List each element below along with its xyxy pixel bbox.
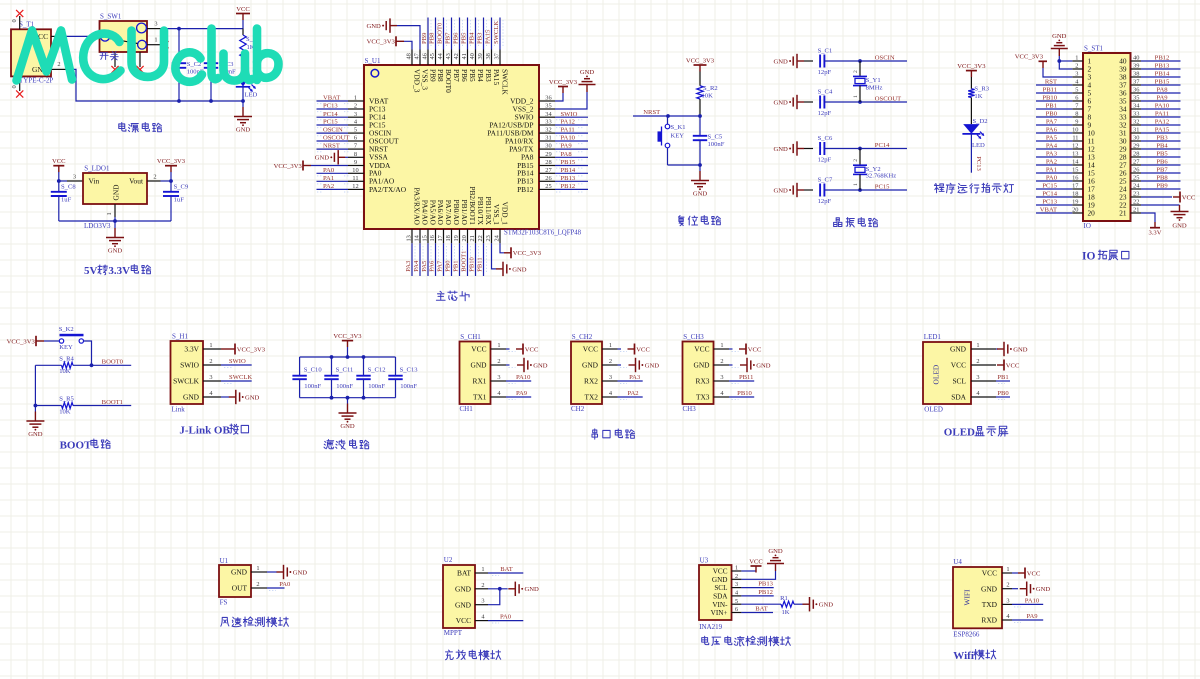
svg-text:PA5: PA5 (421, 260, 428, 272)
svg-text:R1: R1 (780, 595, 788, 602)
svg-text:S_CH3: S_CH3 (683, 333, 704, 341)
svg-text:1: 1 (481, 566, 484, 573)
svg-text:PB0: PB0 (1046, 111, 1058, 118)
svg-text:CH3: CH3 (683, 405, 697, 413)
wire PB1 net (996, 380, 1010, 382)
svg-text:1: 1 (609, 342, 612, 349)
svg-text:3: 3 (497, 374, 500, 381)
crystal group S_Y2 32.768KHz with caps S_C6 S_C7 (774, 135, 907, 205)
svg-text:PA8: PA8 (561, 151, 573, 158)
svg-text:PA7/AO: PA7/AO (444, 200, 453, 226)
junction (498, 587, 502, 591)
ground flag at header pin1/2 (1051, 33, 1073, 69)
svg-text:GND: GND (183, 393, 200, 402)
svg-text:OUT: OUT (232, 584, 248, 593)
svg-text:SWIO: SWIO (229, 358, 246, 365)
svg-text:24: 24 (493, 234, 500, 241)
svg-text:S_C6: S_C6 (818, 135, 833, 142)
serial module S_CH1 (460, 333, 548, 413)
svg-text:PA7: PA7 (1046, 119, 1058, 126)
svg-text:3.3V: 3.3V (184, 345, 199, 354)
wire PB12 net (741, 595, 773, 597)
svg-text:14: 14 (413, 234, 420, 241)
svg-text:GND: GND (645, 362, 660, 369)
svg-text:23: 23 (485, 235, 492, 241)
wire BAT net U3 (741, 612, 773, 614)
svg-text:3.3V: 3.3V (1148, 230, 1161, 237)
svg-text:PB6: PB6 (453, 32, 460, 44)
svg-text:47: 47 (413, 52, 420, 59)
svg-text:GND: GND (693, 190, 708, 197)
svg-text:2: 2 (256, 581, 259, 588)
svg-text:PB3: PB3 (1156, 135, 1168, 142)
svg-text:PC13: PC13 (1042, 199, 1057, 206)
ground flag U3 top (741, 548, 784, 580)
svg-text:BOOT: BOOT (60, 440, 92, 452)
svg-text:1uF: 1uF (61, 197, 72, 204)
svg-text:VCC: VCC (748, 346, 762, 353)
power flag VCC_3V3 reset (686, 57, 715, 85)
serial module S_CH3 (683, 333, 771, 413)
svg-text:VCC: VCC (694, 345, 709, 354)
ground flag U3 right (803, 603, 810, 605)
ground GND reset (691, 165, 709, 197)
svg-text:PA6: PA6 (429, 260, 436, 272)
svg-text:3: 3 (1006, 597, 1009, 604)
svg-text:8MHz: 8MHz (866, 85, 883, 92)
svg-text:0: 0 (11, 19, 18, 22)
wire key to cap bottom (668, 164, 701, 166)
wire PB0 net (996, 396, 1010, 398)
header right net wires (1141, 55, 1181, 190)
svg-text:39: 39 (477, 53, 484, 59)
svg-text:PA3: PA3 (1046, 151, 1058, 158)
svg-text:S_LDO1: S_LDO1 (84, 165, 110, 173)
svg-text:SCL: SCL (714, 584, 727, 592)
svg-text:SCL: SCL (952, 377, 966, 386)
svg-text:PA2: PA2 (1046, 159, 1057, 166)
svg-text:BOOT1: BOOT1 (102, 399, 123, 406)
svg-text:IO: IO (1084, 222, 1091, 230)
svg-text:VCC_3V3: VCC_3V3 (274, 163, 303, 170)
junction (330, 355, 334, 359)
svg-text:GND: GND (756, 362, 771, 369)
svg-text:PA4/AO: PA4/AO (420, 200, 429, 226)
svg-text:3: 3 (481, 598, 484, 605)
svg-text:PB5: PB5 (461, 32, 468, 44)
svg-text:PB10: PB10 (469, 256, 476, 271)
power flag VCC_3V3 at header pin3 (1015, 54, 1073, 77)
svg-text:PB7: PB7 (452, 69, 461, 82)
power flag 3.3V at header pin21 (1141, 213, 1162, 237)
svg-text:RX2: RX2 (584, 377, 598, 386)
wire BOOT1 net (73, 405, 131, 407)
junction (34, 404, 38, 408)
svg-text:PB8: PB8 (436, 69, 445, 82)
svg-text:PA15: PA15 (485, 29, 492, 44)
svg-text:VCC: VCC (951, 361, 966, 370)
svg-text:PA9: PA9 (1156, 95, 1168, 102)
svg-text:PB6: PB6 (1156, 159, 1168, 166)
svg-text:GND: GND (455, 584, 472, 593)
ground flag oled (996, 342, 1028, 356)
svg-text:STM32F103C8T6_LQFP48: STM32F103C8T6_LQFP48 (504, 230, 582, 237)
capacitor S_C10 100nF (292, 357, 322, 398)
svg-text:U4: U4 (953, 558, 962, 566)
wire NRST net (633, 115, 700, 117)
svg-text:U1: U1 (220, 557, 229, 565)
svg-text:U2: U2 (444, 556, 453, 564)
S_SW1 value label (100, 53, 108, 60)
svg-text:PA10: PA10 (561, 135, 576, 142)
junction (666, 114, 670, 118)
header S_ST1 IO body (1072, 45, 1141, 231)
oled module LED1 body (923, 333, 996, 414)
svg-text:2: 2 (853, 159, 859, 162)
wire filter bottom rail (300, 397, 396, 399)
svg-text:PC14: PC14 (323, 111, 338, 118)
resistor S_R3 1K (968, 86, 990, 125)
svg-text:PC13: PC13 (323, 103, 338, 110)
svg-text:PB11: PB11 (1043, 87, 1057, 94)
svg-text:S_U1: S_U1 (365, 57, 381, 65)
junction (177, 27, 181, 31)
svg-text:3: 3 (609, 374, 612, 381)
svg-text:16: 16 (429, 235, 436, 241)
resistor S_R1 1K (240, 29, 261, 77)
svg-text:3: 3 (976, 374, 979, 381)
svg-text:PB1/AO: PB1/AO (460, 200, 469, 226)
svg-text:1: 1 (1006, 566, 1009, 573)
svg-text:GND: GND (111, 184, 120, 201)
svg-text:S_C13: S_C13 (400, 366, 419, 373)
ground flag at mcu VSSA pin8 (315, 150, 348, 164)
svg-text:3: 3 (154, 21, 157, 28)
wire SWIO net (221, 364, 252, 366)
svg-text:1: 1 (106, 212, 113, 215)
wire PA0 net U2 (488, 620, 523, 622)
capacitor S_C8 1uF (51, 181, 77, 221)
svg-text:2: 2 (1006, 582, 1009, 589)
svg-text:1uF: 1uF (174, 197, 185, 204)
title 复位电路 (678, 216, 684, 226)
svg-text:PB11: PB11 (739, 374, 753, 381)
title 充放电模块 (446, 650, 454, 660)
svg-text:2: 2 (720, 358, 723, 365)
svg-text:VIN-: VIN- (712, 601, 728, 609)
svg-text:GND: GND (108, 247, 123, 254)
svg-text:GND: GND (512, 266, 527, 273)
svg-text:12pF: 12pF (818, 156, 832, 163)
svg-text:S_C9: S_C9 (174, 184, 189, 191)
svg-text:100nF: 100nF (708, 141, 725, 148)
svg-text:GND: GND (774, 146, 789, 153)
svg-text:PB6: PB6 (460, 69, 469, 82)
svg-text:S_SW1: S_SW1 (100, 13, 122, 21)
svg-text:S_ST1: S_ST1 (1084, 45, 1104, 53)
svg-text:BOOT0: BOOT0 (437, 22, 444, 44)
module U1 FS body (219, 557, 267, 607)
svg-text:S_CH1: S_CH1 (460, 333, 481, 341)
svg-text:15: 15 (421, 235, 428, 241)
svg-text:40: 40 (469, 53, 476, 59)
svg-text:PB10/TX: PB10/TX (476, 197, 485, 226)
mcu right side net wires (555, 111, 588, 192)
svg-text:MPPT: MPPT (444, 629, 463, 637)
svg-text:TXD: TXD (982, 600, 998, 609)
svg-text:PA10: PA10 (516, 374, 531, 381)
junction (330, 396, 334, 400)
svg-text:SDA: SDA (951, 393, 966, 402)
header S_H1 Link body (171, 333, 222, 414)
svg-text:RST: RST (1045, 79, 1057, 86)
svg-text:PA15: PA15 (492, 69, 501, 85)
svg-text:3: 3 (73, 174, 76, 181)
svg-text:2: 2 (609, 358, 612, 365)
svg-text:S_C8: S_C8 (61, 184, 76, 191)
title 风速检测模块 (221, 617, 229, 626)
svg-text:TX2: TX2 (584, 393, 598, 402)
svg-text:KEY: KEY (671, 133, 685, 140)
svg-text:SWCLK: SWCLK (493, 21, 500, 44)
title 电压电流检测模块 (702, 636, 709, 644)
svg-text:VCC_3V3: VCC_3V3 (957, 63, 986, 70)
svg-text:VCC_3V3: VCC_3V3 (333, 333, 362, 340)
svg-text:VCC: VCC (1182, 194, 1196, 201)
svg-text:PB15: PB15 (1155, 79, 1170, 86)
svg-text:U3: U3 (700, 556, 709, 564)
ground flag at mcu VSS_3 pin47 (367, 18, 420, 49)
svg-text:PA9: PA9 (1026, 613, 1038, 620)
svg-text:20: 20 (461, 235, 468, 241)
svg-text:PA3: PA3 (629, 374, 641, 381)
svg-text:ESP8266: ESP8266 (953, 630, 980, 638)
svg-text:PB1: PB1 (453, 260, 460, 271)
title 程序运行指示灯 (934, 183, 944, 192)
ground flag U2 (508, 588, 515, 590)
power flag VCC (236, 6, 250, 29)
svg-text:44: 44 (437, 52, 444, 59)
svg-text:GND: GND (340, 423, 355, 430)
power flag VCC_3V3 at mcu VDD_2 pin36 (549, 79, 578, 101)
svg-text:GND: GND (315, 155, 330, 162)
svg-text:13: 13 (405, 235, 412, 241)
svg-text:Wifi: Wifi (953, 650, 974, 662)
svg-text:43: 43 (445, 53, 452, 59)
wire PB13 net (741, 587, 773, 589)
title 串口电路 (592, 429, 598, 439)
resistor R1 1K (741, 595, 802, 616)
svg-text:RXD: RXD (981, 616, 997, 625)
svg-text:PA3: PA3 (405, 260, 412, 272)
svg-text:GND: GND (245, 394, 260, 401)
svg-text:BAT: BAT (457, 569, 471, 578)
ground GND LDO (106, 221, 124, 254)
svg-text:PB14: PB14 (561, 167, 576, 174)
svg-text:GND: GND (236, 126, 251, 133)
power flag VCC_3V3 at mcu VDD_1 pin24 (500, 243, 542, 258)
ground flag at mcu VSS_1 pin23 (492, 243, 527, 276)
title 主芯片 (436, 291, 445, 300)
svg-text:PA4: PA4 (1046, 143, 1058, 150)
svg-text:LED: LED (245, 92, 258, 99)
svg-text:GND: GND (580, 69, 595, 76)
svg-text:VCC_3V3: VCC_3V3 (1015, 54, 1044, 61)
svg-text:BOOT0: BOOT0 (102, 359, 124, 366)
svg-text:PA2/TX/AO: PA2/TX/AO (369, 185, 407, 194)
wire BAT net U2 (488, 572, 523, 574)
svg-text:PA12: PA12 (1155, 119, 1169, 126)
svg-text:12pF: 12pF (818, 110, 832, 117)
svg-text:PB9: PB9 (1156, 183, 1168, 190)
svg-text:VSS_1: VSS_1 (492, 204, 501, 225)
svg-text:32.768KHz: 32.768KHz (866, 173, 897, 180)
svg-text:S_CH2: S_CH2 (572, 333, 593, 341)
svg-text:PB9: PB9 (421, 32, 428, 44)
svg-text:PB0: PB0 (997, 390, 1009, 397)
svg-text:PC14: PC14 (1042, 191, 1057, 198)
svg-text:1K: 1K (781, 609, 789, 616)
svg-text:CH2: CH2 (571, 405, 585, 413)
svg-text:VCC_3V3: VCC_3V3 (686, 57, 715, 64)
svg-text:1: 1 (209, 342, 212, 349)
svg-text:VCC: VCC (1027, 570, 1041, 577)
svg-text:PA1: PA1 (1046, 167, 1057, 174)
svg-text:S_Y1: S_Y1 (866, 77, 881, 84)
wire filter top rail (300, 356, 396, 358)
power flag VCC_3V3 indicator (957, 63, 986, 89)
svg-text:GND: GND (774, 99, 789, 106)
svg-text:PB4: PB4 (476, 69, 485, 82)
svg-text:TX1: TX1 (473, 393, 487, 402)
svg-text:PC14: PC14 (875, 142, 890, 149)
svg-text:PC15: PC15 (323, 119, 338, 126)
svg-text:S_R3: S_R3 (974, 86, 989, 93)
svg-text:VCC: VCC (583, 345, 598, 354)
svg-text:PA0: PA0 (279, 581, 291, 588)
power flag VCC_3V3 at mcu VDDA pin9 (274, 161, 348, 171)
ground flag U1 (267, 565, 307, 579)
svg-text:S_R4: S_R4 (59, 355, 74, 362)
svg-text:GND: GND (455, 600, 472, 609)
wire BOOT0 net (73, 364, 131, 366)
svg-text:SWCLK: SWCLK (173, 377, 200, 386)
ground flag at header pin22 (1141, 205, 1189, 230)
svg-text:PB14: PB14 (1155, 71, 1170, 78)
ground flag jlink (221, 390, 260, 404)
svg-text:S_D2: S_D2 (973, 118, 988, 125)
svg-text:VCC_3V3: VCC_3V3 (367, 39, 396, 46)
svg-text:PB8: PB8 (429, 32, 436, 44)
svg-text:1: 1 (853, 95, 859, 98)
svg-text:PA0: PA0 (1046, 175, 1058, 182)
wire key to BOOT0 node (84, 341, 92, 365)
svg-text:VBAT: VBAT (323, 95, 340, 102)
key S_K1 KEY (658, 116, 686, 165)
power flag VCC_3V3 jlink (221, 344, 266, 355)
svg-text:GND: GND (819, 602, 834, 609)
svg-text:100nF: 100nF (304, 383, 321, 390)
ground GND power section (234, 101, 252, 133)
svg-text:PA10: PA10 (1025, 597, 1040, 604)
svg-text:Vout: Vout (129, 176, 144, 185)
svg-text:GND: GND (582, 361, 599, 370)
svg-text:1: 1 (853, 183, 859, 186)
svg-text:PB4: PB4 (469, 32, 476, 44)
svg-text:2: 2 (497, 358, 500, 365)
svg-text:PB0: PB0 (445, 260, 452, 272)
svg-text:CH1: CH1 (460, 405, 474, 413)
svg-text:SDA: SDA (713, 593, 728, 601)
mcu U1 STM32F103C8T6 body (348, 50, 582, 244)
svg-text:Vin: Vin (89, 176, 100, 185)
mcu top net wires (421, 18, 503, 50)
wire PA0 net U1 (267, 587, 285, 589)
title 滤波电路 (324, 440, 334, 449)
svg-text:PB1: PB1 (1046, 103, 1057, 110)
svg-text:PB7: PB7 (1156, 167, 1168, 174)
svg-text:20: 20 (1088, 209, 1096, 218)
LED S_D1 (236, 70, 261, 101)
svg-text:PB13: PB13 (1155, 63, 1170, 70)
svg-text:VCC: VCC (982, 569, 997, 578)
svg-text:2: 2 (153, 174, 156, 181)
svg-text:PA8: PA8 (1156, 87, 1168, 94)
capacitor S_C12 100nF (356, 357, 385, 398)
crystal group S_Y1 8MHz with caps S_C1 S_C4 (774, 47, 907, 117)
wire boot left vertical (34, 365, 36, 405)
svg-text:OLED: OLED (944, 427, 975, 439)
power flag VCC_3V3 at LDO output (157, 158, 186, 181)
svg-text:IO: IO (1082, 251, 1095, 263)
junction (57, 179, 61, 183)
svg-text:1: 1 (154, 37, 157, 44)
svg-text:PA4: PA4 (413, 260, 420, 272)
svg-text:PA2: PA2 (627, 390, 638, 397)
svg-text:VCC_3V3: VCC_3V3 (7, 338, 36, 345)
svg-text:PB11/RX: PB11/RX (484, 197, 493, 226)
svg-text:PC13: PC13 (975, 156, 982, 171)
svg-text:GND: GND (981, 584, 998, 593)
ground GND boot (26, 406, 44, 438)
svg-text:12pF: 12pF (818, 198, 832, 205)
svg-text:OSCOUT: OSCOUT (875, 95, 901, 102)
title 晶振电路 (834, 218, 842, 227)
svg-text:GND: GND (470, 361, 487, 370)
svg-text:OLED: OLED (931, 364, 940, 384)
capacitor S_C9 1uF (163, 181, 189, 221)
svg-text:PA0: PA0 (500, 614, 512, 621)
svg-text:3: 3 (209, 374, 212, 381)
svg-text:2: 2 (481, 582, 484, 589)
svg-text:GND: GND (1013, 346, 1028, 353)
svg-text:GND: GND (1052, 33, 1067, 40)
wire LDO Vout (161, 180, 172, 182)
svg-text:PA15: PA15 (1155, 127, 1170, 134)
svg-text:S_C12: S_C12 (368, 366, 386, 373)
svg-text:19: 19 (453, 235, 460, 241)
svg-text:S_K2: S_K2 (59, 326, 74, 333)
svg-text:10K: 10K (59, 368, 71, 375)
svg-text:KEY: KEY (59, 344, 73, 351)
svg-text:SWIO: SWIO (561, 111, 578, 118)
wire PC13 net (970, 134, 972, 173)
svg-text:PA7: PA7 (437, 260, 444, 272)
header left net wires (1036, 79, 1072, 214)
svg-text:PA11: PA11 (1155, 111, 1169, 118)
svg-text:SWCLK: SWCLK (229, 374, 252, 381)
svg-text:VCC: VCC (236, 6, 250, 13)
